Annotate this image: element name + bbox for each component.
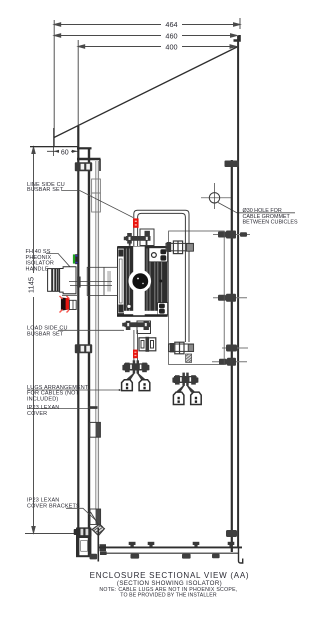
dimension 1145 (vertical): [25, 147, 76, 534]
mounting panel: [169, 231, 225, 365]
lexan cover (grey lines): [95, 161, 97, 524]
svg-text:INCLUDED): INCLUDED): [27, 396, 58, 402]
load busbar vertical: [134, 330, 138, 362]
handle base: [60, 267, 76, 294]
red marker line side: [133, 218, 139, 227]
corner vertical: [97, 528, 99, 562]
grommet hole circle: [201, 183, 232, 209]
bottom white strip: [124, 311, 158, 314]
isolator bottom clamp: [122, 321, 150, 334]
left wall top flange: [77, 147, 92, 149]
lexan bracket blocks: [96, 422, 101, 437]
busbar bridge (line side): [134, 210, 189, 342]
leader handle: [46, 253, 70, 266]
right wall bolt y533: [226, 530, 237, 537]
white channel + bulge: [133, 247, 145, 317]
right wall bolt y298: [213, 294, 247, 302]
label: LOAD SIDE CU BUSBAR SET: [27, 326, 68, 338]
right wall top elbow: [234, 35, 240, 41]
svg-text:(SECTION SHOWING ISOLATOR): (SECTION SHOWING ISOLATOR): [117, 580, 222, 587]
dimension 60: [47, 146, 78, 156]
dimension 400: [78, 40, 236, 126]
handle shaft: [69, 282, 112, 286]
dimension 464: [54, 18, 240, 146]
left wall inner: [88, 148, 90, 556]
svg-text:BUSBAR SET: BUSBAR SET: [27, 331, 64, 337]
svg-text:TO BE PROVIDED BY THE INSTALLE: TO BE PROVIDED BY THE INSTALLER: [120, 592, 217, 598]
label: LINE SIDE CU BUSBAR SET: [27, 182, 65, 193]
label: 30 HOLE FOR CABLE GROMMET: [243, 208, 299, 226]
roof diagonal: [54, 47, 237, 138]
left lug clamp: [122, 360, 149, 380]
hatched bracket diamond: [92, 525, 104, 536]
leader lexan cover: [27, 407, 97, 409]
left white strip: [118, 248, 125, 313]
leader lugs: [27, 389, 120, 391]
connector block right of load busbar: [139, 337, 156, 352]
label: IP23 LEXAN COVER BRACKETS: [27, 498, 80, 510]
rail bolts above: [129, 542, 235, 547]
svg-text:60: 60: [61, 149, 69, 156]
busbar clamp top-left: [75, 162, 92, 171]
svg-text:ENCLOSURE SECTIONAL VIEW (AA): ENCLOSURE SECTIONAL VIEW (AA): [90, 571, 250, 580]
top-right white box: [149, 248, 168, 262]
caption: [90, 571, 250, 598]
hatched busbar cut: [186, 354, 192, 362]
isolator top clamp: [124, 229, 154, 246]
right busbar clamp lower: [169, 342, 194, 354]
left roof ledge: [30, 128, 78, 147]
body stripes: [126, 249, 161, 314]
shaft knob: [132, 273, 148, 289]
bottom-left frame box: [77, 537, 90, 556]
svg-text:1145: 1145: [26, 277, 35, 293]
red marker load side: [133, 350, 138, 359]
svg-text:400: 400: [165, 43, 177, 52]
label: LUGS ARRANGEMENT FOR CABLES (NOT INCLUDED): [27, 385, 89, 403]
rail bolts below: [90, 554, 220, 560]
right wall inner: [231, 160, 233, 547]
right wall bolt y163: [225, 161, 240, 168]
isolator mount bracket (edge-on): [87, 267, 117, 295]
busbar edge-on behind lexan: [92, 179, 101, 212]
green indicator: [73, 254, 75, 263]
leader line side: [62, 191, 133, 218]
svg-text:464: 464: [165, 20, 177, 29]
right busbar clamp upper: [166, 241, 193, 254]
left wall outer: [77, 126, 79, 556]
leader load side: [58, 329, 124, 331]
right lugs: [173, 392, 201, 404]
isolator body U1: [117, 246, 168, 317]
label: IP23 LEXAN COVER: [27, 405, 59, 417]
right wall bolt y362: [212, 358, 247, 366]
bottom rail: [99, 547, 242, 553]
leader cover brackets: [66, 508, 103, 527]
right wall outer: [237, 36, 239, 547]
shaft wall cross: [77, 277, 80, 288]
label: FH 40 SS PHEONIX ISOLATOR HANDLE: [26, 249, 55, 272]
leader grommet hole: [218, 203, 295, 213]
svg-text:COVER: COVER: [27, 411, 47, 417]
busbar clamp mid-left: [75, 344, 92, 353]
right lug clamp: [172, 373, 198, 393]
small rings: [127, 304, 131, 308]
svg-text:BETWEEN CUBICLES: BETWEEN CUBICLES: [243, 220, 299, 226]
right wall bolt y234: [213, 231, 250, 239]
right wall bolt y348: [222, 347, 248, 349]
red lock wedge: [60, 295, 78, 312]
bottom-right white box: [158, 303, 168, 315]
handle knob (striped): [48, 269, 60, 292]
bottom-left corner clamp: [74, 527, 92, 536]
svg-text:460: 460: [165, 32, 177, 41]
svg-text:HANDLE: HANDLE: [26, 266, 49, 272]
bottom rail right hook: [239, 547, 243, 563]
dimension 460: [54, 34, 237, 37]
svg-text:BUSBAR SET: BUSBAR SET: [27, 187, 64, 193]
left lugs: [122, 380, 150, 391]
